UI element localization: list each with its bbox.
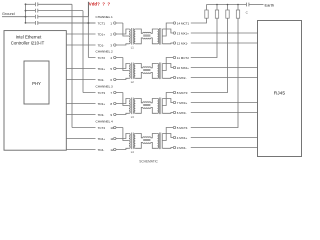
wire ground label to bus: [2, 16, 26, 18]
wire resistor R1 top: [206, 5, 208, 11]
svg-text:8 MCT3: 8 MCT3: [177, 91, 188, 95]
pin circle TD4-: [114, 148, 116, 150]
svg-text:CHANNEL 1: CHANNEL 1: [96, 15, 114, 19]
wire MX2+ step: [162, 64, 173, 68]
output autotransformer core: [158, 28, 160, 45]
output autotransformer tap bar: [161, 134, 163, 149]
wire MX4- to RJ45: [191, 147, 258, 149]
output autotransformer core: [158, 63, 160, 80]
pin label TD1- 3: [96, 43, 114, 47]
svg-text:3 MX4-: 3 MX4-: [177, 146, 187, 150]
choke L1 bottom winding: [143, 38, 151, 39]
wire MX2+ to RJ45: [191, 67, 258, 69]
pin circle TD2-: [114, 78, 116, 80]
svg-text:Earth: Earth: [265, 2, 275, 7]
svg-text:5 MCT4: 5 MCT4: [177, 126, 188, 130]
wire riser row2 to TCT3: [82, 11, 84, 93]
connector J1 RJ45: [258, 21, 302, 157]
wire MX3- to RJ45: [191, 112, 258, 114]
choke L4 top winding: [143, 137, 151, 138]
wire MX1- step: [162, 42, 173, 45]
pin circle TD3-: [114, 113, 116, 115]
junction rail R2: [216, 4, 218, 6]
pin circle TD4+: [114, 137, 116, 139]
wire secondary top to choke: [135, 29, 143, 33]
pin label TCT3 7: [96, 90, 114, 94]
svg-text:TD1-: TD1-: [98, 43, 105, 47]
transformer L3 primary winding: [129, 99, 130, 114]
resistor R4: [236, 10, 239, 18]
wire TCT3 to transformer center tap: [123, 93, 128, 106]
pin circle MCT3: [173, 91, 175, 93]
pin circle MX3+: [173, 101, 175, 103]
pin circle MCT4: [173, 126, 175, 128]
wire choke top to output transformer: [151, 29, 157, 33]
svg-text:TD1+: TD1+: [98, 32, 106, 36]
output autotransformer tap bar: [161, 64, 163, 79]
pin label TCT1 1: [96, 21, 114, 25]
junction ground bus row 3: [25, 16, 27, 18]
svg-text:6 MX3-: 6 MX3-: [177, 111, 187, 115]
pin circle TCT3: [114, 91, 116, 93]
wire MCT2 center tap up: [162, 58, 173, 71]
svg-text:Controller I210-IT: Controller I210-IT: [11, 40, 45, 45]
wire secondary bottom to choke: [135, 38, 143, 44]
wire cap to earth label: [249, 4, 263, 6]
svg-text:Ground: Ground: [2, 12, 15, 16]
output autotransformer winding: [158, 64, 159, 79]
pin label TD3- 9: [96, 112, 114, 116]
wire secondary top to choke: [135, 64, 143, 68]
pin label TD1+ 2: [96, 32, 114, 36]
wire riser row3 to TCT2: [87, 17, 89, 58]
svg-text:TD3+: TD3+: [98, 102, 106, 106]
wire TCT4 to transformer center tap: [123, 128, 128, 141]
pin label TCT2 4: [96, 55, 114, 59]
pin label TD2- 6: [96, 77, 114, 81]
output autotransformer core: [158, 133, 160, 150]
wire MCT1 center tap up: [162, 23, 173, 36]
svg-text:CHANNEL 4: CHANNEL 4: [96, 119, 114, 123]
wire bus to capacitor C3: [26, 16, 36, 18]
choke L2 top winding: [143, 67, 151, 68]
wire MX3+ step: [162, 99, 173, 103]
transformer L4 primary winding: [129, 134, 130, 149]
svg-text:C: C: [246, 11, 249, 15]
pin circle MX4+: [173, 136, 175, 138]
capacitor C1: [34, 2, 36, 6]
svg-text:4 MX4+: 4 MX4+: [177, 136, 188, 140]
wire TD4- from U1: [66, 148, 128, 149]
junction riser crossing TCT1: [87, 22, 89, 24]
pin circle TD2+: [114, 67, 116, 69]
svg-text:SCHEMATIC: SCHEMATIC: [139, 160, 158, 164]
svg-text:13 MX1+: 13 MX1+: [177, 31, 189, 35]
svg-text:L3: L3: [131, 115, 134, 119]
svg-text:L1: L1: [131, 46, 134, 50]
pin circle TCT4: [114, 126, 116, 128]
transformer L1 secondary winding: [134, 29, 135, 44]
wire MX2- to RJ45: [191, 77, 258, 79]
capacitor C4: [34, 21, 36, 25]
junction ground bus row 1: [25, 3, 27, 5]
wire TD4+ from U1: [66, 134, 128, 139]
choke L1 top winding: [143, 32, 151, 33]
wire resistor R3 top: [227, 5, 229, 11]
wire MX1+ to RJ45: [191, 32, 258, 34]
wire TD3+ from U1: [66, 99, 128, 104]
wire choke bottom to output transformer: [151, 72, 157, 78]
svg-text:TD4+: TD4+: [98, 137, 106, 141]
choke L3 bottom winding: [143, 107, 151, 108]
wire MX4+ to RJ45: [191, 137, 258, 139]
output autotransformer tap bar: [161, 99, 163, 114]
svg-text:TCT3: TCT3: [98, 91, 106, 95]
wire TD1- from U1: [66, 44, 128, 45]
choke L2 bottom winding: [143, 72, 151, 73]
wire MCT4 center tap up: [162, 128, 173, 141]
wire TCT3 row: [83, 92, 123, 94]
output autotransformer winding: [158, 99, 159, 114]
wire resistor R4 top: [237, 5, 239, 11]
svg-text:L4: L4: [131, 150, 134, 154]
pin circle TD1-: [114, 44, 116, 46]
wire TCT1 row: [38, 22, 123, 24]
svg-text:14 MCT1: 14 MCT1: [177, 21, 190, 25]
wire MX4- step: [162, 147, 173, 150]
wire TCT4 row: [72, 127, 123, 129]
resistor R2: [215, 10, 218, 18]
wire MX1+ step: [162, 29, 173, 33]
wire MX4+ step: [162, 134, 173, 138]
pin circle MX1-: [173, 42, 175, 44]
wire TCT2 to transformer center tap: [123, 58, 128, 71]
transformer L3 secondary winding: [134, 99, 135, 114]
svg-text:TCT1: TCT1: [98, 21, 106, 25]
choke L1 core: [143, 34, 150, 36]
output autotransformer winding: [158, 29, 159, 44]
pin circle TCT2: [114, 56, 116, 58]
pin label TCT4 10: [96, 125, 114, 129]
wire cap row 3 to riser: [38, 16, 88, 18]
junction ground bus row 2: [25, 10, 27, 12]
wire choke bottom to output transformer: [151, 38, 157, 44]
output autotransformer winding: [158, 134, 159, 149]
wire TD2- from U1: [66, 78, 128, 79]
wire MX3+ to RJ45: [191, 102, 258, 104]
wire cap row 1 to riser: [38, 3, 72, 5]
wire MX3- step: [162, 112, 173, 115]
transformer L4 core: [131, 133, 133, 150]
wire resistor R2 top: [216, 5, 218, 11]
svg-text:Vdd? ? ?: Vdd? ? ?: [89, 2, 111, 7]
block PHY inside U1: [24, 61, 49, 104]
svg-text:Intel Ethernet: Intel Ethernet: [16, 34, 42, 39]
wire riser row1 to TCT4: [71, 4, 73, 127]
IC U1 Intel Ethernet Controller I210-IT: [4, 31, 66, 151]
wire TD2+ from U1: [66, 64, 128, 69]
wire choke bottom to output transformer: [151, 107, 157, 113]
wire cap row 2 to riser: [38, 10, 83, 12]
wire secondary top to choke: [135, 134, 143, 138]
pin circle MX4-: [173, 146, 175, 148]
transformer L4 secondary winding: [134, 134, 135, 149]
svg-text:TCT4: TCT4: [98, 126, 106, 130]
wire choke top to output transformer: [151, 64, 157, 68]
svg-text:CHANNEL 3: CHANNEL 3: [96, 84, 114, 88]
junction rail R4: [237, 4, 239, 6]
transformer L2 primary winding: [129, 64, 130, 79]
capacitor C5 to earth: [245, 3, 247, 7]
transformer L2 core: [131, 63, 133, 80]
output autotransformer tap bar: [161, 29, 163, 44]
choke L3 top winding: [143, 102, 151, 103]
pin label TD2+ 5: [96, 66, 114, 70]
svg-text:12 MX1-: 12 MX1-: [177, 41, 188, 45]
pin circle MX2-: [173, 76, 175, 78]
svg-text:11 MCT2: 11 MCT2: [177, 56, 189, 60]
choke L2 core: [143, 69, 150, 71]
choke L4 bottom winding: [143, 142, 151, 143]
wire ground bus: [25, 4, 27, 23]
pin circle TD1+: [114, 33, 116, 35]
svg-text:RJ45: RJ45: [274, 90, 286, 96]
wire bus to capacitor C1: [26, 3, 36, 5]
wire earth rail: [207, 4, 247, 6]
output autotransformer core: [158, 98, 160, 115]
pin circle MCT1: [173, 22, 175, 24]
wire secondary top to choke: [135, 99, 143, 103]
wire MX1- to RJ45: [191, 42, 258, 44]
capacitor C3: [34, 15, 36, 19]
svg-text:CHANNEL 2: CHANNEL 2: [96, 49, 114, 53]
wire TD1+ from U1: [66, 29, 128, 34]
svg-text:10 MX2+: 10 MX2+: [177, 66, 189, 70]
wire cap row 4 joins TCT1 net: [38, 22, 96, 24]
svg-text:TCT2: TCT2: [98, 56, 106, 60]
wire MCT1 to resistor drop: [191, 18, 207, 23]
wire MCT4 to resistor drop: [191, 18, 238, 127]
svg-text:TD4-: TD4-: [98, 148, 105, 152]
pin circle TCT1: [114, 22, 116, 24]
pin label TD4- 12: [96, 147, 114, 151]
wire secondary bottom to choke: [135, 107, 143, 113]
svg-text:TD2-: TD2-: [98, 78, 105, 82]
junction ground bus row 4: [25, 22, 27, 24]
pin circle MX2+: [173, 66, 175, 68]
wire MX2- step: [162, 77, 173, 80]
transformer L1 core: [131, 28, 133, 45]
wire MCT3 center tap up: [162, 93, 173, 106]
pin label TD3+ 8: [96, 101, 114, 105]
wire MCT3 to resistor drop: [191, 18, 228, 92]
wire bus to capacitor C2: [26, 10, 36, 12]
wire choke bottom to output transformer: [151, 142, 157, 148]
resistor R1: [205, 10, 208, 18]
transformer L1 primary winding: [129, 29, 130, 44]
transformer L2 secondary winding: [134, 64, 135, 79]
svg-text:L2: L2: [131, 80, 134, 84]
choke L4 core: [143, 139, 150, 141]
wire bus to capacitor C4: [26, 22, 36, 24]
wire TCT1 to transformer center tap: [123, 23, 128, 36]
wire secondary bottom to choke: [135, 142, 143, 148]
svg-text:9 MX2-: 9 MX2-: [177, 76, 187, 80]
annotation leader line: [87, 2, 89, 17]
pin circle MX3-: [173, 111, 175, 113]
svg-text:PHY: PHY: [32, 81, 41, 86]
choke L3 core: [143, 104, 150, 106]
pin circle MX1+: [173, 32, 175, 34]
pin circle MCT2: [173, 56, 175, 58]
junction rail R3: [227, 4, 229, 6]
svg-text:7 MX3+: 7 MX3+: [177, 101, 188, 105]
svg-text:TD2+: TD2+: [98, 67, 106, 71]
wire choke top to output transformer: [151, 99, 157, 103]
wire TD3- from U1: [66, 113, 128, 114]
wire MCT2 to resistor drop: [191, 18, 217, 57]
resistor R3: [226, 10, 229, 18]
wire secondary bottom to choke: [135, 72, 143, 78]
wire choke top to output transformer: [151, 134, 157, 138]
wire TCT2 row: [88, 57, 123, 59]
capacitor C2: [34, 9, 36, 13]
transformer L3 core: [131, 98, 133, 115]
svg-text:TD3-: TD3-: [98, 113, 105, 117]
pin circle TD3+: [114, 102, 116, 104]
pin label TD4+ 11: [96, 136, 114, 140]
